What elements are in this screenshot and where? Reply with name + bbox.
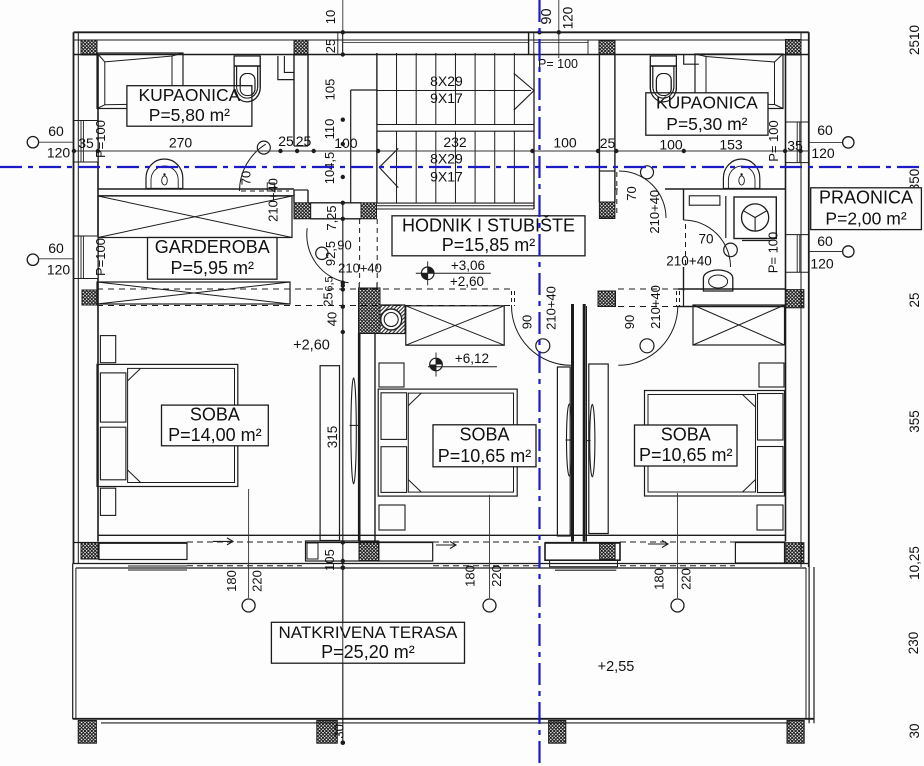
svg-text:60: 60	[817, 233, 833, 249]
svg-text:P=10,65 m²: P=10,65 m²	[438, 446, 532, 466]
svg-text:40: 40	[325, 312, 340, 326]
svg-text:P= 100: P= 100	[766, 232, 781, 274]
svg-text:120: 120	[561, 7, 576, 30]
svg-text:105: 105	[323, 79, 338, 101]
svg-text:230: 230	[906, 632, 921, 655]
svg-text:35: 35	[78, 135, 94, 151]
svg-text:P=25,20 m²: P=25,20 m²	[321, 642, 415, 662]
svg-text:60: 60	[817, 122, 833, 138]
svg-text:220: 220	[250, 570, 265, 592]
svg-text:270: 270	[169, 135, 193, 151]
svg-text:6,5: 6,5	[324, 276, 336, 291]
svg-text:110: 110	[322, 119, 337, 140]
svg-text:100: 100	[553, 135, 577, 151]
svg-text:10: 10	[323, 10, 338, 24]
svg-text:8X29: 8X29	[430, 151, 463, 167]
svg-text:9X17: 9X17	[430, 169, 463, 185]
svg-text:2510: 2510	[907, 25, 922, 55]
svg-text:70: 70	[698, 232, 713, 247]
svg-text:7,25: 7,25	[324, 205, 339, 230]
svg-text:+6,12: +6,12	[455, 351, 489, 366]
svg-text:NATKRIVENA TERASA: NATKRIVENA TERASA	[279, 623, 459, 642]
svg-text:92,5: 92,5	[323, 241, 338, 266]
svg-text:153: 153	[719, 137, 743, 153]
svg-text:180: 180	[652, 568, 667, 590]
svg-text:25: 25	[321, 292, 336, 306]
svg-text:SOBA: SOBA	[661, 425, 711, 445]
svg-text:P=2,00 m²: P=2,00 m²	[825, 209, 906, 229]
svg-text:210+40: 210+40	[666, 254, 711, 269]
svg-text:210+40: 210+40	[647, 190, 662, 234]
svg-text:220: 220	[679, 568, 694, 590]
svg-text:8X29: 8X29	[430, 73, 463, 89]
svg-text:90: 90	[520, 315, 535, 329]
svg-text:SOBA: SOBA	[459, 424, 509, 444]
svg-text:180: 180	[224, 570, 239, 592]
svg-text:60: 60	[48, 123, 64, 139]
svg-text:10,25: 10,25	[907, 546, 922, 580]
svg-text:HODNIK I STUBIŠTE: HODNIK I STUBIŠTE	[402, 214, 575, 235]
svg-text:60: 60	[48, 240, 64, 256]
svg-text:KUPAONICA: KUPAONICA	[139, 85, 241, 105]
svg-text:SOBA: SOBA	[190, 405, 240, 425]
svg-text:90: 90	[539, 8, 555, 24]
svg-text:35: 35	[787, 138, 803, 154]
svg-text:180: 180	[463, 565, 478, 587]
svg-text:P=15,85 m²: P=15,85 m²	[442, 235, 536, 255]
svg-text:P=14,00 m²: P=14,00 m²	[168, 425, 262, 445]
svg-text:P=5,30 m²: P=5,30 m²	[666, 114, 747, 134]
svg-text:210+40: 210+40	[544, 286, 559, 330]
svg-text:25: 25	[907, 292, 922, 307]
svg-text:KUPAONICA: KUPAONICA	[656, 92, 758, 112]
svg-text:+2,55: +2,55	[598, 659, 635, 675]
svg-text:P=10,65 m²: P=10,65 m²	[639, 445, 733, 465]
svg-text:210+40: 210+40	[648, 285, 663, 329]
svg-text:120: 120	[47, 145, 71, 161]
svg-text:9X17: 9X17	[430, 90, 463, 106]
svg-text:232: 232	[443, 134, 467, 150]
svg-text:100: 100	[659, 137, 683, 153]
svg-text:25: 25	[296, 133, 312, 149]
svg-text:100: 100	[334, 135, 358, 151]
svg-text:P=5,95 m²: P=5,95 m²	[170, 258, 254, 278]
svg-text:90: 90	[337, 238, 351, 253]
svg-text:90: 90	[622, 315, 637, 329]
svg-text:120: 120	[811, 145, 835, 161]
svg-text:GARDEROBA: GARDEROBA	[155, 237, 270, 257]
svg-text:315: 315	[325, 426, 340, 449]
svg-text:P= 100: P= 100	[538, 57, 578, 71]
svg-text:70: 70	[624, 186, 639, 200]
svg-text:25: 25	[278, 133, 294, 149]
svg-text:25: 25	[323, 39, 338, 53]
svg-text:25: 25	[600, 135, 616, 151]
svg-text:+2,60: +2,60	[450, 274, 484, 289]
svg-text:355: 355	[907, 410, 922, 433]
svg-text:120: 120	[810, 256, 834, 272]
svg-text:+2,60: +2,60	[293, 338, 330, 354]
svg-text:P=100: P=100	[93, 238, 108, 276]
svg-text:120: 120	[47, 262, 71, 278]
svg-text:+3,06: +3,06	[451, 258, 485, 273]
svg-text:220: 220	[489, 565, 504, 587]
svg-text:P=5,80 m²: P=5,80 m²	[149, 105, 230, 125]
svg-text:30: 30	[907, 723, 922, 738]
svg-text:70: 70	[239, 171, 254, 185]
svg-text:210+40: 210+40	[338, 261, 382, 276]
svg-text:105: 105	[322, 549, 337, 571]
svg-text:P=100: P=100	[93, 120, 108, 158]
svg-text:210+40: 210+40	[266, 178, 281, 222]
svg-text:PRAONICA: PRAONICA	[819, 187, 913, 207]
svg-text:30: 30	[332, 724, 347, 738]
